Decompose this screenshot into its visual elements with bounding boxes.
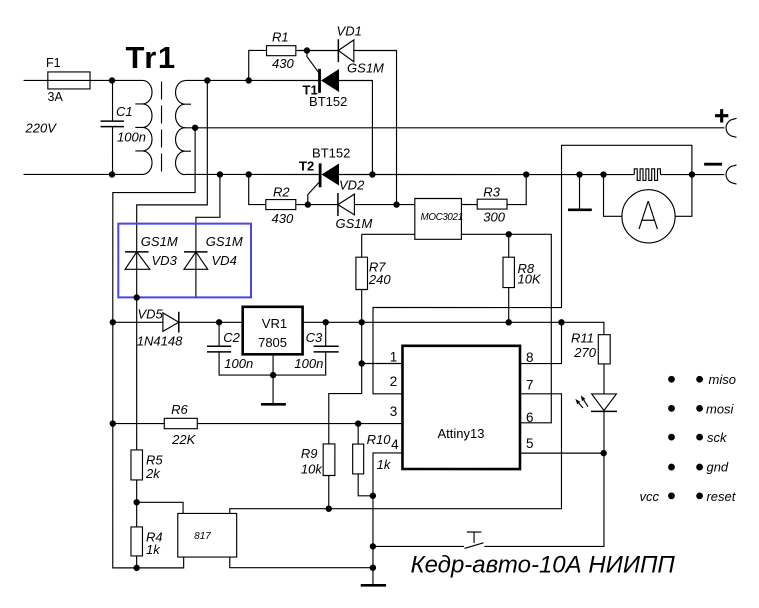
svg-text:MOC3021: MOC3021 (421, 212, 463, 223)
svg-text:VR1: VR1 (262, 316, 287, 331)
svg-text:270: 270 (573, 345, 596, 360)
svg-text:BT152: BT152 (312, 145, 350, 160)
svg-text:4: 4 (391, 437, 399, 452)
svg-text:vcc: vcc (639, 489, 659, 504)
svg-text:GS1M: GS1M (347, 60, 384, 75)
svg-text:817: 817 (194, 531, 211, 542)
svg-text:GS1M: GS1M (336, 216, 373, 231)
svg-text:100n: 100n (224, 356, 253, 371)
svg-text:220V: 220V (25, 120, 58, 135)
svg-text:GS1M: GS1M (206, 234, 243, 249)
svg-text:mosi: mosi (706, 402, 735, 417)
svg-text:22K: 22K (171, 432, 196, 447)
svg-text:7805: 7805 (258, 335, 287, 350)
svg-text:3A: 3A (48, 90, 64, 104)
svg-text:C1: C1 (116, 104, 133, 119)
svg-text:R11: R11 (571, 331, 594, 346)
svg-text:430: 430 (272, 211, 294, 226)
svg-text:miso: miso (708, 372, 735, 387)
svg-text:R3: R3 (483, 185, 500, 200)
svg-text:1: 1 (390, 350, 398, 365)
svg-text:C3: C3 (306, 330, 323, 345)
svg-text:C2: C2 (223, 330, 240, 345)
svg-text:10k: 10k (301, 461, 323, 476)
svg-text:1N4148: 1N4148 (137, 333, 183, 348)
svg-text:240: 240 (368, 272, 391, 287)
svg-text:R6: R6 (171, 402, 188, 417)
svg-text:GS1M: GS1M (141, 234, 178, 249)
svg-text:R1: R1 (272, 29, 289, 44)
svg-text:6: 6 (526, 410, 534, 425)
svg-text:7: 7 (526, 378, 534, 393)
svg-text:F1: F1 (46, 56, 61, 70)
svg-text:100n: 100n (294, 356, 323, 371)
svg-text:BT152: BT152 (309, 94, 347, 109)
svg-text:3: 3 (390, 404, 398, 419)
svg-text:300: 300 (483, 210, 505, 225)
svg-text:VD1: VD1 (337, 23, 362, 38)
svg-text:10K: 10K (518, 272, 542, 287)
svg-text:sck: sck (707, 430, 728, 445)
svg-text:430: 430 (272, 56, 294, 71)
svg-text:1k: 1k (146, 542, 161, 557)
svg-text:VD3: VD3 (152, 253, 178, 268)
svg-text:Attiny13: Attiny13 (437, 426, 484, 441)
svg-text:2k: 2k (145, 466, 161, 481)
svg-text:R9: R9 (301, 446, 318, 461)
svg-text:VD5: VD5 (137, 306, 163, 321)
svg-text:VD4: VD4 (212, 253, 237, 268)
svg-text:1k: 1k (377, 457, 392, 472)
svg-text:R2: R2 (273, 184, 290, 199)
svg-text:2: 2 (390, 374, 398, 389)
svg-text:VD2: VD2 (339, 177, 365, 192)
svg-text:Кедр-авто-10А НИИПП: Кедр-авто-10А НИИПП (410, 552, 675, 579)
svg-text:100n: 100n (117, 129, 146, 144)
svg-text:5: 5 (526, 436, 534, 451)
svg-text:gnd: gnd (706, 460, 728, 475)
svg-text:8: 8 (526, 350, 534, 365)
svg-text:reset: reset (706, 489, 736, 504)
svg-text:Tr1: Tr1 (126, 40, 177, 75)
svg-text:R10: R10 (367, 432, 392, 447)
svg-text:T2: T2 (299, 158, 314, 173)
